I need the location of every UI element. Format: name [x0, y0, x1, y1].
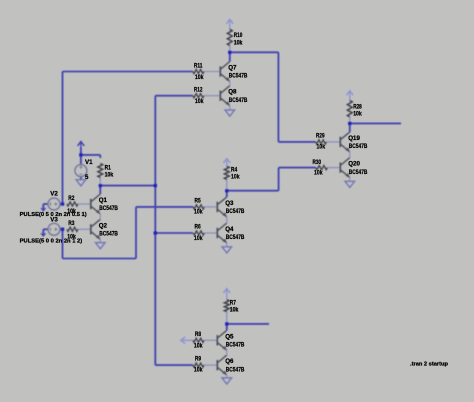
label Q20 [348, 161, 360, 168]
wire Q19/Q20 output stub [350, 122, 401, 124]
wire node A down [277, 52, 279, 142]
wire node B up [278, 168, 280, 191]
svg-text:10k: 10k [234, 39, 243, 46]
power arrow above R10 [226, 19, 233, 29]
wire Q7 base net vertical [62, 72, 64, 205]
node V3 input [61, 228, 65, 232]
wire R1 junction to Q1 collector [99, 186, 101, 194]
svg-text:R4: R4 [231, 167, 238, 174]
label V2 [50, 191, 58, 198]
svg-text:BC547B: BC547B [99, 231, 118, 238]
wire node B right [227, 190, 279, 192]
value R11 10k [195, 74, 204, 81]
label Q2 [99, 222, 108, 229]
power arrow above R28 [346, 91, 353, 101]
svg-text:R6: R6 [195, 224, 202, 231]
value R9 10k [194, 367, 203, 374]
node E Q19 collector [348, 122, 352, 126]
value Q3 BC547B [226, 208, 245, 215]
svg-text:R9: R9 [195, 356, 202, 363]
wire Q1 emitter to Q2 collector [99, 214, 101, 220]
wire V3 node bottom horizontal [63, 258, 137, 260]
transistor Q2 [91, 219, 101, 239]
svg-text:V1: V1 [85, 159, 93, 166]
svg-text:V2: V2 [50, 191, 58, 198]
label R4 [231, 167, 238, 174]
label R1 [105, 164, 112, 171]
transistor Q4 [217, 223, 227, 243]
svg-text:R2: R2 [68, 195, 75, 202]
wire R7 junction to Q5 collector [226, 324, 228, 330]
node driver/R1 [154, 184, 158, 188]
resistor R4 [224, 166, 229, 190]
svg-text:R5: R5 [195, 197, 202, 204]
wire to R29 [278, 141, 315, 143]
resistor R11 [193, 69, 220, 73]
ground below Q8 [225, 110, 235, 116]
svg-text:Q8: Q8 [228, 89, 237, 96]
svg-text:Q1: Q1 [99, 197, 108, 204]
label R6 [195, 224, 202, 231]
resistor R10 [227, 29, 232, 52]
value R5 10k [194, 209, 203, 216]
svg-text:Q3: Q3 [225, 200, 234, 207]
svg-text:Q7: Q7 [228, 65, 237, 72]
svg-text:10k: 10k [194, 235, 203, 242]
label Q7 [228, 65, 237, 72]
node V2 input [61, 202, 65, 206]
wire driver net to R9 [155, 364, 193, 366]
resistor R29 [316, 140, 341, 144]
wire Q6 emitter to ground [226, 375, 228, 378]
value Q6 BC547B [226, 366, 245, 373]
resistor R28 [347, 101, 352, 124]
svg-text:V3: V3 [50, 216, 58, 223]
wire V1 to ground [80, 177, 82, 180]
wire Q8 emitter to ground [229, 105, 231, 110]
label Q19 [348, 135, 360, 142]
svg-text:10k: 10k [195, 98, 204, 105]
wire to R30 [279, 167, 316, 169]
wire R1 top lead [99, 155, 101, 158]
power arrow above V1 [78, 142, 85, 156]
svg-text:5: 5 [85, 174, 89, 181]
label Q8 [228, 89, 237, 96]
value R28 10k [353, 111, 362, 118]
svg-text:BC547B: BC547B [229, 97, 248, 104]
spice directive .tran [410, 361, 449, 367]
svg-text:10k: 10k [317, 144, 326, 151]
value Q1 BC547B [99, 205, 118, 212]
label R29 [316, 132, 325, 139]
wire V2 right pin [60, 203, 62, 205]
svg-text:10k: 10k [194, 367, 203, 374]
wire driver net to R6 [155, 232, 193, 234]
resistor R7 [224, 300, 229, 324]
label Q6 [225, 358, 234, 365]
ground below Q4 [222, 247, 232, 253]
value Q4 BC547B [226, 234, 245, 241]
wire Q8 base net horizontal [155, 95, 193, 97]
wire Q5/Q6 output stub [227, 323, 269, 325]
voltage source V2 [48, 198, 60, 210]
label R12 [194, 87, 203, 94]
power arrow above R4 [223, 159, 230, 167]
svg-text:R12: R12 [194, 87, 203, 94]
svg-text:BC547B: BC547B [226, 342, 245, 349]
wire Q20 emitter to ground [349, 177, 351, 181]
label Q5 [225, 333, 234, 340]
svg-text:BC547B: BC547B [226, 208, 245, 215]
wire Q5 emitter to Q6 collector [226, 350, 228, 355]
label V3 [50, 216, 58, 223]
wire Q1 collector node to driver net [100, 185, 155, 187]
label R3 [68, 220, 75, 227]
label Q4 [225, 226, 234, 233]
wire V1 top tee [81, 148, 100, 165]
wire R28 junction to Q19 collector [349, 123, 351, 131]
resistor R1 [98, 164, 103, 186]
label R28 [353, 104, 362, 111]
value V3 PULSE [20, 239, 83, 245]
wire Q4 emitter to ground [226, 243, 228, 247]
svg-text:BC547B: BC547B [349, 169, 368, 176]
resistor R12 [193, 94, 220, 98]
transistor Q7 [220, 62, 230, 82]
wire Q7 emitter to Q8 collector [229, 81, 231, 86]
label R30 [313, 159, 322, 166]
svg-text:R1: R1 [105, 164, 112, 171]
value V1 5 [85, 174, 89, 181]
wire Q3 emitter to Q4 collector [226, 216, 228, 223]
node V1 tee [79, 153, 83, 157]
voltage source V1 [75, 165, 87, 177]
svg-text:10k: 10k [353, 111, 362, 118]
svg-text:BC547B: BC547B [99, 205, 118, 212]
svg-text:10k: 10k [314, 170, 323, 177]
value Q5 BC547B [226, 342, 245, 349]
transistor Q6 [217, 355, 227, 375]
resistor R9 [193, 363, 217, 367]
svg-text:R3: R3 [68, 220, 75, 227]
value R12 10k [195, 98, 204, 105]
value Q8 BC547B [229, 97, 248, 104]
svg-text:BC547B: BC547B [226, 234, 245, 241]
wire V3 node down [62, 229, 64, 258]
wire V3 right pin [60, 228, 62, 230]
label R9 [195, 356, 202, 363]
value R4 10k [231, 174, 240, 181]
transistor Q19 [340, 132, 350, 152]
svg-text:Q19: Q19 [348, 135, 360, 142]
resistor R30 [316, 166, 341, 170]
svg-text:R10: R10 [234, 32, 243, 39]
label Q3 [225, 200, 234, 207]
svg-text:10k: 10k [195, 74, 204, 81]
node A Q7 collector [228, 51, 232, 55]
transistor Q1 [91, 194, 101, 214]
svg-text:PULSE(5 0 0 2n 2n 1 2): PULSE(5 0 0 2n 2n 1 2) [20, 239, 83, 245]
svg-text:Q6: Q6 [225, 358, 234, 365]
svg-text:10k: 10k [231, 174, 240, 181]
value Q19 BC547B [349, 143, 368, 150]
resistor R6 [193, 231, 217, 235]
value Q2 BC547B [99, 231, 118, 238]
ground below V1 [76, 180, 86, 186]
resistor R5 [193, 205, 217, 209]
svg-text:Q4: Q4 [225, 226, 234, 233]
wire to R5 [136, 206, 193, 208]
wire node A right [230, 51, 279, 53]
value R3 10k [67, 233, 76, 240]
svg-text:BC547B: BC547B [229, 73, 248, 80]
svg-text:10k: 10k [105, 172, 114, 179]
wire driver net long vertical [154, 96, 156, 365]
voltage source V3 [48, 223, 60, 235]
value V2 PULSE [20, 212, 87, 218]
resistor R8 [193, 338, 217, 342]
node driver/R6 [154, 231, 158, 235]
wire Q7 base net horizontal [63, 71, 193, 73]
wire Q19 emitter to Q20 collector [349, 151, 351, 157]
value R29 10k [317, 144, 326, 151]
wire Q2 emitter to ground [99, 239, 101, 243]
value Q20 BC547B [349, 169, 368, 176]
label R5 [195, 197, 202, 204]
wire R10 junction to Q7 collector [229, 52, 231, 61]
power arrow left of R8 [181, 337, 193, 344]
wire R4 junction to Q3 collector [226, 191, 228, 197]
svg-text:R30: R30 [313, 159, 322, 166]
value R2 10k [67, 208, 76, 215]
svg-text:10k: 10k [194, 209, 203, 216]
svg-text:Q20: Q20 [348, 161, 360, 168]
svg-text:10k: 10k [194, 343, 203, 350]
label R8 [195, 331, 202, 338]
svg-text:10k: 10k [230, 307, 239, 314]
node B Q3 collector [225, 189, 229, 193]
label R10 [234, 32, 243, 39]
svg-text:.tran 2 startup: .tran 2 startup [410, 361, 449, 367]
label V1 [85, 159, 93, 166]
label R2 [68, 195, 75, 202]
value R30 10k [314, 170, 323, 177]
svg-text:R8: R8 [195, 331, 202, 338]
svg-text:R29: R29 [316, 132, 325, 139]
svg-text:Q2: Q2 [99, 222, 108, 229]
resistor R2 [67, 202, 91, 206]
value R10 10k [234, 39, 243, 46]
svg-text:R11: R11 [194, 63, 203, 70]
transistor Q8 [220, 86, 230, 106]
resistor R3 [67, 227, 91, 231]
value R1 10k [105, 172, 114, 179]
svg-text:R7: R7 [230, 299, 237, 306]
label R11 [194, 63, 203, 70]
wire V3 left hook [41, 229, 48, 236]
svg-text:BC547B: BC547B [349, 143, 368, 150]
svg-text:BC547B: BC547B [226, 366, 245, 373]
svg-text:Q5: Q5 [225, 333, 234, 340]
value Q7 BC547B [229, 73, 248, 80]
power arrow above R7 [223, 289, 230, 301]
transistor Q5 [217, 330, 227, 350]
ground below Q6 [222, 378, 232, 384]
node Q1 collector out [99, 184, 103, 188]
label Q1 [99, 197, 108, 204]
ground below Q2 [96, 243, 106, 249]
transistor Q3 [217, 197, 227, 217]
node D Q5 collector [225, 322, 229, 326]
ground below Q20 [345, 181, 355, 187]
wire V2 left hook [41, 204, 48, 211]
value R6 10k [194, 235, 203, 242]
label R7 [230, 299, 237, 306]
transistor Q20 [340, 158, 350, 178]
wire riser to Q3 base row [135, 207, 137, 259]
svg-text:R28: R28 [353, 104, 362, 111]
value R7 10k [230, 307, 239, 314]
value R8 10k [194, 343, 203, 350]
